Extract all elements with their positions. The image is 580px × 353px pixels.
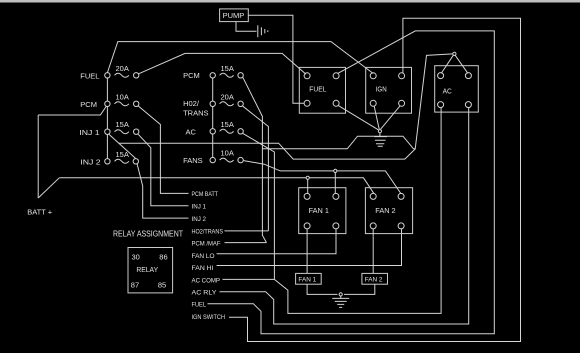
ground (relays) xyxy=(374,133,387,147)
ground (fans) xyxy=(332,296,349,307)
fuse HO2/TRANS 20A xyxy=(183,92,243,117)
relay AC xyxy=(435,66,479,112)
fuse INJ 2 15A xyxy=(80,150,138,167)
ground (pump, sideways) xyxy=(258,25,268,37)
wire: IGN relay coil to ground xyxy=(374,106,400,130)
svg-text:FUEL: FUEL xyxy=(80,71,99,80)
fan 1 motor box xyxy=(296,273,322,284)
wire: INJ 1 fuse out to INJ 1 label xyxy=(138,134,188,205)
svg-text:IGN: IGN xyxy=(376,85,387,94)
wire: FUEL relay coil to ground xyxy=(338,105,378,130)
wire: FUEL fuse out to FUEL relay (top bus 2) xyxy=(139,53,306,74)
wire: HO2 fuse out to HO2/TRANS label xyxy=(225,106,269,231)
relay FUEL xyxy=(299,67,345,113)
svg-text:20A: 20A xyxy=(116,64,129,73)
svg-text:15A: 15A xyxy=(116,120,129,129)
fuse FANS 10A xyxy=(183,149,243,165)
wire: FAN2 relay to fan 2 motor xyxy=(372,229,374,274)
wire: PCM 15A fuse out to PCM/MAF label xyxy=(225,77,267,242)
svg-text:FUEL: FUEL xyxy=(192,302,207,309)
wire: FUEL label to FUEL relay coil (wrap) xyxy=(208,31,495,334)
svg-text:PCM BATT: PCM BATT xyxy=(192,191,219,198)
svg-text:AC COMP: AC COMP xyxy=(192,277,221,284)
svg-text:10A: 10A xyxy=(221,149,234,158)
wire: FAN LO from FAN1 relay xyxy=(217,229,336,254)
wire: battery bus to FAN relays xyxy=(59,178,374,194)
svg-text:AC: AC xyxy=(443,87,453,96)
wire: PCM fuse out to PCM BATT label xyxy=(138,106,188,193)
relay assignment box xyxy=(128,248,173,293)
svg-text:30: 30 xyxy=(132,252,140,261)
wire: middle fuse column supply bus xyxy=(212,78,214,157)
window top edge strip xyxy=(0,0,580,3)
svg-text:AC RLY: AC RLY xyxy=(192,290,218,297)
svg-text:FAN 1: FAN 1 xyxy=(309,206,329,215)
svg-text:FAN 2: FAN 2 xyxy=(375,206,395,215)
pump box xyxy=(220,9,249,22)
svg-text:85: 85 xyxy=(158,280,166,289)
svg-text:FAN LO: FAN LO xyxy=(192,253,215,260)
wire: IGN SWITCH label to IGN relay coil (wrap) xyxy=(229,18,521,341)
svg-text:15A: 15A xyxy=(221,120,234,129)
svg-text:10A: 10A xyxy=(116,92,129,101)
wire: INJ 2 fuse out to INJ 2 label xyxy=(137,164,189,219)
node fan coil bus junction xyxy=(334,169,337,194)
svg-text:FAN HI: FAN HI xyxy=(192,265,214,272)
svg-text:87: 87 xyxy=(131,280,139,289)
wire: mid bus jog under IGN ground xyxy=(262,136,415,149)
wire: battery to PCM fuse xyxy=(38,106,106,115)
fuse PCM 10A xyxy=(80,92,139,109)
svg-text:FAN 1: FAN 1 xyxy=(298,277,316,284)
svg-text:FAN 2: FAN 2 xyxy=(365,277,383,284)
svg-text:FANS: FANS xyxy=(183,156,203,165)
wire: AC fuse out to AC COMP label and AC relay contact xyxy=(223,107,442,313)
relay FAN 2 xyxy=(365,188,412,234)
svg-text:PCM /MAF: PCM /MAF xyxy=(192,240,221,247)
svg-text:FUEL: FUEL xyxy=(309,85,326,94)
wire: FUEL fuse in to IGN relay (top bus 1) xyxy=(107,42,373,74)
svg-text:RELAY ASSIGNMENT: RELAY ASSIGNMENT xyxy=(113,229,183,238)
svg-text:INJ 1: INJ 1 xyxy=(79,128,99,137)
svg-text:IGN SWITCH: IGN SWITCH xyxy=(192,314,226,321)
wire: fan motors to ground xyxy=(307,284,375,294)
svg-text:PUMP: PUMP xyxy=(223,11,245,20)
node relay ground junction xyxy=(378,130,381,133)
fuse FUEL 20A xyxy=(80,64,139,81)
wire: INJ1 branch bus to AC relay coil node xyxy=(119,54,453,159)
svg-text:TRANS: TRANS xyxy=(183,108,208,117)
relay FAN 1 xyxy=(299,188,346,234)
svg-text:AC: AC xyxy=(186,128,197,137)
fuse INJ 1 15A xyxy=(79,120,139,137)
fuse AC 15A xyxy=(186,120,244,137)
wire: left fuse column supply bus xyxy=(106,78,108,159)
svg-text:20A: 20A xyxy=(221,92,234,101)
svg-text:INJ 1: INJ 1 xyxy=(192,204,207,211)
wire: battery feed riser xyxy=(37,115,39,198)
wire: FAN HI from FAN2 relay xyxy=(217,229,402,266)
wire: FAN1 relay to fan 1 motor xyxy=(306,229,308,274)
svg-text:BATT +: BATT + xyxy=(27,208,53,217)
fan 2 motor box xyxy=(362,273,388,284)
svg-text:INJ 2: INJ 2 xyxy=(192,216,207,223)
svg-text:HO2/TRANS: HO2/TRANS xyxy=(192,228,224,235)
node fan ground junction xyxy=(339,293,342,296)
node fan battery bus junction xyxy=(306,176,309,194)
wire: AC RLY label to AC relay coil (wrap) xyxy=(220,107,469,324)
svg-text:RELAY: RELAY xyxy=(136,265,158,274)
svg-text:15A: 15A xyxy=(221,64,234,73)
svg-text:H02/: H02/ xyxy=(183,99,200,108)
svg-text:86: 86 xyxy=(159,252,167,261)
svg-text:PCM: PCM xyxy=(183,71,200,80)
node AC relay coil junction xyxy=(441,52,468,73)
fuse PCM 15A xyxy=(183,64,243,80)
wire: pump to ground xyxy=(236,22,257,32)
relay IGN xyxy=(366,67,412,113)
wire: pump to FUEL relay output xyxy=(248,15,304,103)
wire: battery bus to fan relays (lower bus) xyxy=(38,178,59,198)
svg-text:INJ 2: INJ 2 xyxy=(80,157,100,166)
wire: INJ1 supply diagonal to INJ2 fuse xyxy=(109,134,136,158)
wire: FANS fuse out to fan relay coils xyxy=(244,161,401,194)
svg-text:PCM: PCM xyxy=(80,100,97,109)
